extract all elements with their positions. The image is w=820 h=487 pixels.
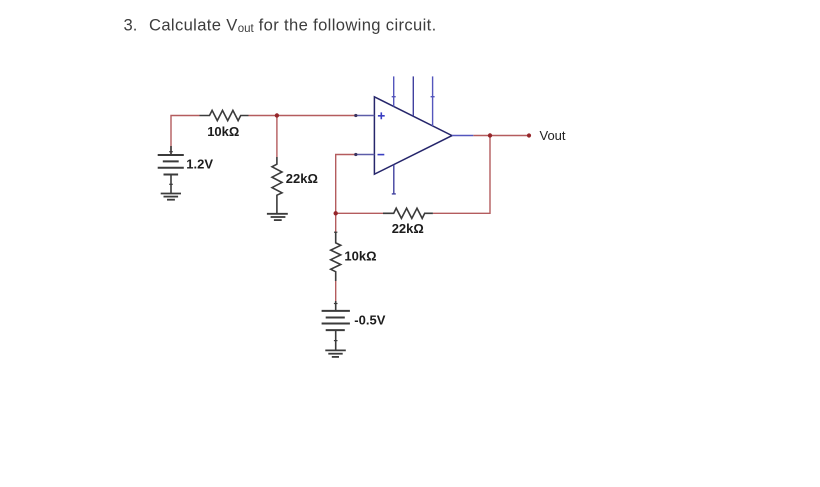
resistor R1 10k horizontal <box>200 110 249 120</box>
label 10kΩ for R4 <box>344 249 376 264</box>
battery V2 -0.5V <box>322 301 350 350</box>
wire: op-amp output to Vout terminal <box>473 135 529 137</box>
svg-text:22kΩ: 22kΩ <box>392 221 424 236</box>
wire: R4 bottom to V2 battery <box>335 281 337 311</box>
svg-text:10kΩ: 10kΩ <box>344 249 376 264</box>
op-amp U1 power pin 2 <box>412 76 414 116</box>
wire: node B right to R3 <box>336 212 383 214</box>
label 10kΩ for R1 <box>207 124 239 139</box>
resistor R2 22k vertical <box>272 157 282 213</box>
svg-text:10kΩ: 10kΩ <box>207 124 239 139</box>
heading text <box>124 15 437 35</box>
op-amp U1 output pin <box>452 135 473 137</box>
wire: top net from V1 to R1 <box>171 116 200 156</box>
op-amp U1 plus input marker <box>378 112 385 119</box>
svg-text:22kΩ: 22kΩ <box>286 171 318 186</box>
wire-pin arrow at + input <box>354 114 357 117</box>
wire: node B down to R4 <box>335 213 337 232</box>
wire-pin arrow at - input <box>354 153 357 156</box>
label 22kΩ for R3 <box>392 221 424 236</box>
svg-text:-0.5V: -0.5V <box>354 312 385 327</box>
svg-text:1.2V: 1.2V <box>186 157 213 172</box>
wire: R1 right to op-amp + input (through node A) <box>249 115 358 117</box>
svg-text:Calculate Vout for the followi: Calculate Vout for the following circuit… <box>149 15 437 35</box>
op-amp U1 power pin 3 <box>431 76 435 126</box>
ground under R2 <box>267 214 288 220</box>
label Vout <box>540 128 566 143</box>
label 1.2V for V1 <box>186 157 213 172</box>
battery V1 1.2V <box>158 146 184 193</box>
ground under V2 <box>325 350 346 357</box>
node B junction dot <box>334 211 338 215</box>
wire: node A down to R2 <box>276 116 278 158</box>
op-amp U1 power pin 1 <box>392 76 396 106</box>
wire: feedback from - input down to node B <box>336 155 358 214</box>
resistor R4 10k vertical <box>331 232 341 281</box>
resistor R3 22k horizontal (feedback) <box>383 208 433 218</box>
op-amp U1 bottom pin <box>392 165 396 194</box>
op-amp U1 triangle <box>374 97 452 174</box>
wire: R3 right side up to output net <box>433 136 490 214</box>
label -0.5V for V2 <box>354 312 385 327</box>
op-amp U1 non-inverting input pin <box>356 115 374 117</box>
node C junction dot on output <box>488 133 492 137</box>
ground under V1 <box>161 194 181 200</box>
op-amp U1 minus input marker <box>378 154 385 156</box>
Vout terminal dot <box>527 133 531 137</box>
svg-text:Vout: Vout <box>540 128 566 143</box>
node A junction dot <box>275 113 279 117</box>
svg-text:3.: 3. <box>124 15 138 34</box>
label 22kΩ for R2 <box>286 171 318 186</box>
op-amp U1 inverting input pin <box>356 154 374 156</box>
